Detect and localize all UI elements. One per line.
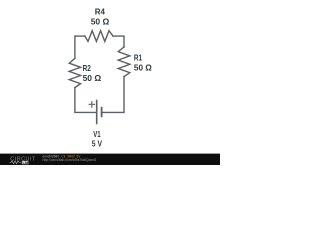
footer watermark bar (0, 154, 220, 165)
resistor R2 (vertical zigzag) (69, 58, 80, 87)
svg-text:http://circuitlab.com/c/ws7fa6: http://circuitlab.com/c/ws7fa6Qaxn8 (43, 158, 97, 162)
svg-text:LAB: LAB (23, 161, 31, 165)
wire top-left: left rail up + top run to R4 (75, 36, 85, 58)
svg-text:5 V: 5 V (92, 139, 102, 149)
battery plus sign (89, 101, 96, 108)
battery V1 long plate (+) (96, 100, 98, 125)
svg-text:50 Ω: 50 Ω (83, 73, 102, 83)
battery V1 short plate (-) (101, 107, 103, 118)
wire bottom-left: battery long plate to left rail up to R2 (75, 88, 97, 113)
svg-text:V1: V1 (93, 129, 101, 139)
svg-text:50 Ω: 50 Ω (91, 17, 110, 27)
CircuitLab logo LAB box (22, 161, 29, 164)
svg-text:R1: R1 (134, 52, 142, 62)
svg-text:R4: R4 (95, 7, 105, 17)
resistor R4 (horizontal zigzag) (85, 31, 113, 42)
wire right rail down + bottom run to battery short plate (102, 77, 124, 113)
wire top-right: run from R4 to right rail, down to R1 (113, 36, 124, 47)
resistor R1 (vertical zigzag) (118, 47, 130, 77)
CircuitLab logo zigzag (10, 161, 22, 164)
svg-text:50 Ω: 50 Ω (134, 62, 152, 72)
svg-text:R2: R2 (83, 63, 91, 73)
